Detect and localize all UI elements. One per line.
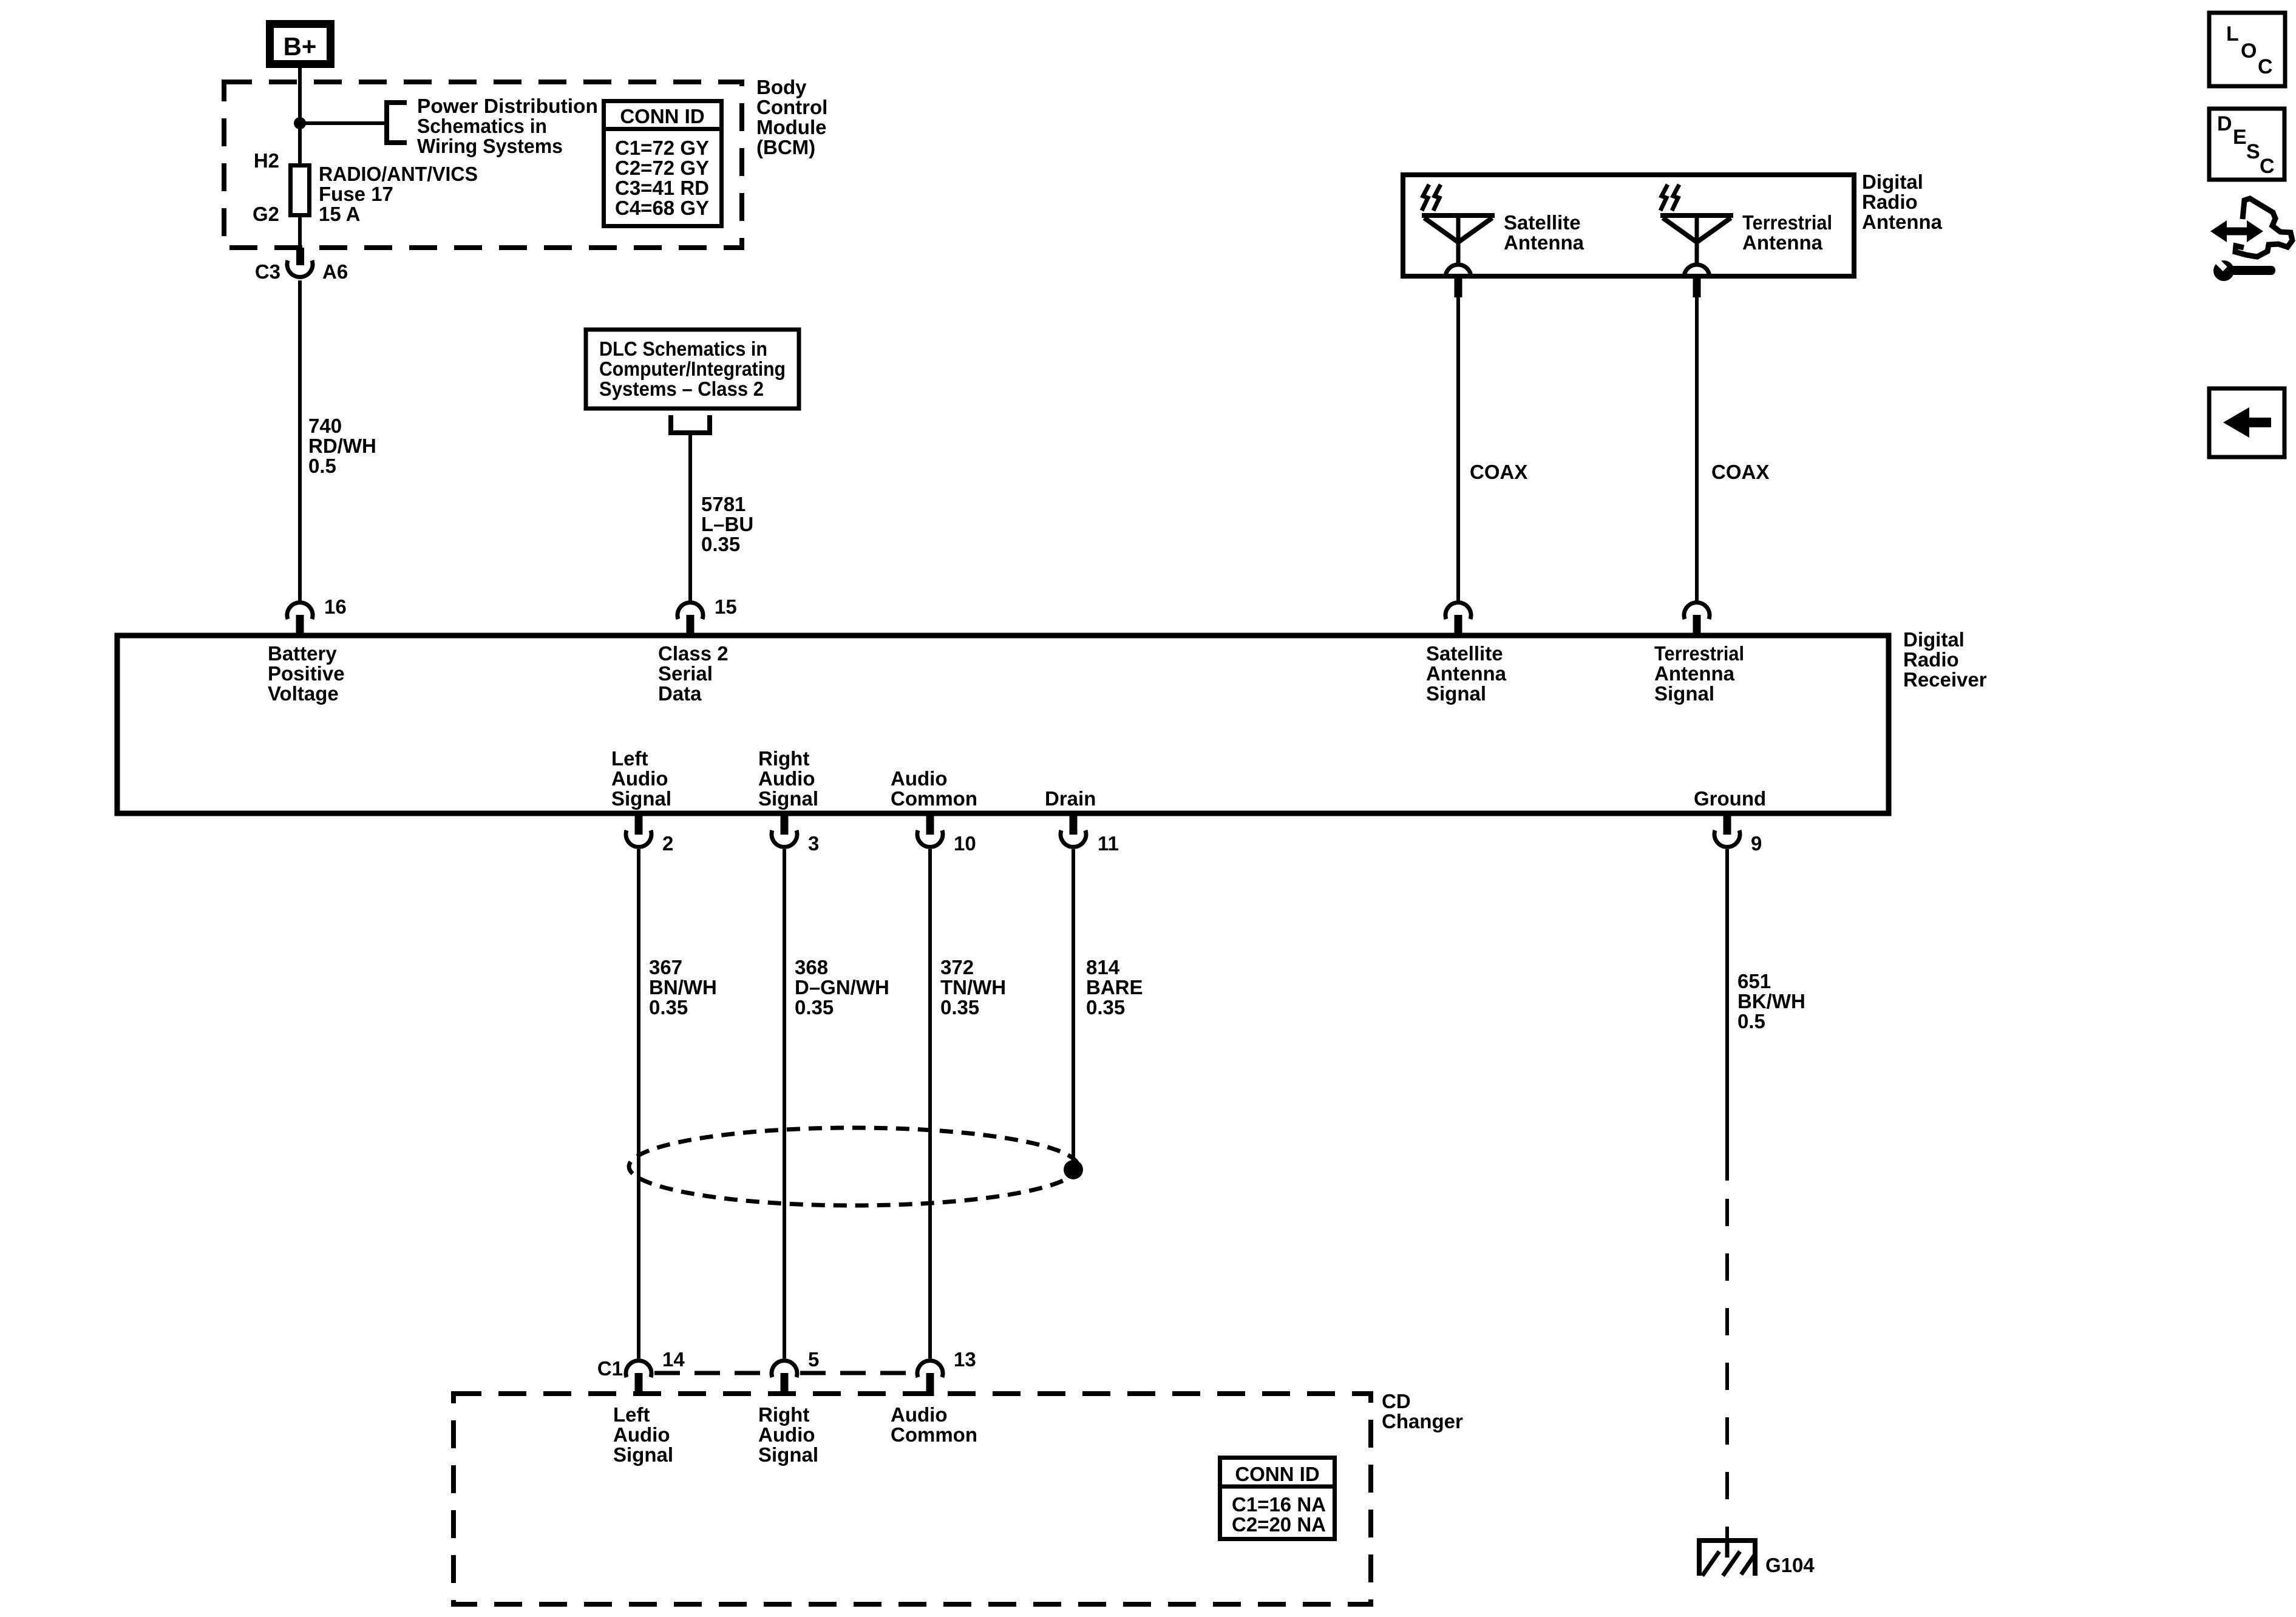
svg-text:Signal: Signal — [1654, 682, 1714, 705]
svg-text:Signal: Signal — [1426, 682, 1486, 705]
svg-text:Voltage: Voltage — [268, 682, 339, 705]
wire 368 D-GN/WH — [783, 849, 786, 1358]
svg-text:DLC Schematics in: DLC Schematics in — [599, 337, 767, 360]
svg-text:L–BU: L–BU — [701, 513, 753, 535]
satellite antenna symbol — [1422, 215, 1495, 263]
svg-text:L: L — [2226, 22, 2239, 46]
node Class 2 Serial Data label — [658, 642, 729, 705]
Digital Radio Receiver label — [1903, 628, 1987, 691]
Body Control Module dashed box — [224, 82, 742, 248]
svg-text:Class 2: Class 2 — [658, 642, 729, 665]
svg-text:Digital: Digital — [1862, 171, 1923, 193]
drain junction dot on shield — [1064, 1160, 1083, 1179]
LOC nav icon — [2209, 13, 2285, 86]
svg-text:C4=68 GY: C4=68 GY — [615, 197, 709, 219]
svg-text:C1=72 GY: C1=72 GY — [615, 137, 709, 159]
svg-text:(BCM): (BCM) — [756, 136, 815, 158]
receiver pin 16 connector — [287, 595, 347, 636]
svg-text:Audio: Audio — [891, 1403, 947, 1426]
svg-text:Drain: Drain — [1045, 787, 1096, 810]
wire 814 BARE drain — [1072, 849, 1075, 1170]
svg-text:Antenna: Antenna — [1426, 662, 1507, 685]
svg-text:814: 814 — [1086, 956, 1120, 978]
terrestrial antenna symbol — [1660, 215, 1733, 263]
svg-text:Changer: Changer — [1382, 1410, 1463, 1432]
svg-text:0.35: 0.35 — [649, 996, 688, 1019]
svg-text:C1: C1 — [597, 1357, 623, 1380]
svg-text:Audio: Audio — [613, 1423, 670, 1446]
svg-text:368: 368 — [795, 956, 828, 978]
ground G104 symbol — [1697, 1538, 1758, 1576]
svg-text:Audio: Audio — [758, 767, 815, 790]
receiver pin 2 connector — [626, 813, 673, 855]
CD label Left Audio Signal — [613, 1403, 673, 1466]
wire 651 dashed part — [1725, 1199, 1729, 1541]
svg-text:Satellite: Satellite — [1504, 211, 1581, 234]
wire 367 BN/WH — [637, 849, 640, 1358]
DLC off-page bracket — [671, 415, 710, 433]
svg-text:0.5: 0.5 — [1737, 1010, 1765, 1032]
svg-text:Signal: Signal — [758, 1443, 818, 1466]
svg-text:C3=41 RD: C3=41 RD — [615, 177, 709, 199]
svg-text:C1=16 NA: C1=16 NA — [1232, 1493, 1326, 1516]
svg-text:Common: Common — [891, 787, 977, 810]
svg-text:372: 372 — [940, 956, 974, 978]
svg-text:Audio: Audio — [891, 767, 947, 790]
satellite antenna connector dome — [1445, 265, 1471, 277]
CONN ID table (CD changer) — [1218, 1458, 1337, 1539]
svg-text:BK/WH: BK/WH — [1737, 990, 1805, 1012]
svg-text:CD: CD — [1382, 1390, 1411, 1412]
receiver terrestrial antenna pin connector — [1684, 603, 1710, 636]
connector C3 pin A6 arc — [287, 260, 313, 277]
svg-text:Radio: Radio — [1903, 648, 1959, 671]
wire junction to Power Distribution bracket — [300, 121, 387, 125]
svg-text:13: 13 — [954, 1348, 976, 1371]
svg-text:Left: Left — [613, 1403, 650, 1426]
CD pin 5 connector — [772, 1348, 819, 1396]
svg-text:Serial: Serial — [658, 662, 713, 685]
svg-text:14: 14 — [662, 1348, 685, 1371]
receiver satellite antenna pin connector — [1445, 603, 1471, 636]
svg-text:16: 16 — [324, 595, 347, 618]
receiver pin 3 connector — [772, 813, 819, 855]
svg-text:651: 651 — [1737, 970, 1771, 992]
CD label Audio Common — [891, 1403, 977, 1446]
wire 372 TN/WH — [928, 849, 932, 1358]
svg-text:Computer/Integrating: Computer/Integrating — [599, 358, 786, 380]
svg-text:Terrestrial: Terrestrial — [1742, 211, 1832, 234]
svg-text:740: 740 — [308, 415, 342, 437]
svg-text:G2: G2 — [253, 203, 279, 225]
CD Changer dashed box — [453, 1394, 1371, 1604]
DLC Schematics reference box — [586, 330, 799, 408]
svg-text:S: S — [2246, 140, 2260, 163]
svg-text:2: 2 — [662, 832, 673, 855]
svg-text:Module: Module — [756, 116, 826, 138]
node Terrestrial Antenna Signal label — [1654, 642, 1744, 705]
svg-text:3: 3 — [808, 832, 819, 855]
wire 5781 L-BU — [688, 433, 692, 601]
receiver top labels — [268, 642, 345, 705]
svg-text:Audio: Audio — [758, 1423, 815, 1446]
Digital Radio Antenna box — [1403, 175, 1854, 276]
node Satellite Antenna Signal label — [1426, 642, 1507, 705]
svg-text:BN/WH: BN/WH — [649, 976, 717, 998]
wire label 740 RD/WH 0.5 — [308, 415, 376, 477]
svg-text:15 A: 15 A — [319, 203, 360, 225]
wire label 372 TN/WH 0.35 — [940, 956, 1006, 1019]
svg-text:RADIO/ANT/VICS: RADIO/ANT/VICS — [319, 163, 478, 185]
Digital Radio Receiver box — [117, 636, 1889, 813]
CONN ID table (BCM) — [602, 101, 724, 226]
satellite antenna wave bolts — [1422, 185, 1441, 211]
COAX wire terrestrial — [1695, 297, 1699, 601]
schematic navigation arrow-wrench icon — [2210, 198, 2292, 281]
receiver pin 10 connector — [917, 813, 976, 855]
svg-text:RD/WH: RD/WH — [308, 435, 376, 457]
svg-text:E: E — [2233, 126, 2247, 149]
node junction dot — [294, 117, 306, 129]
wire label 651 BK/WH 0.5 — [1737, 970, 1805, 1032]
svg-text:Left: Left — [611, 747, 648, 770]
svg-text:Fuse 17: Fuse 17 — [319, 183, 393, 205]
wire label 367 BN/WH 0.35 — [649, 956, 717, 1019]
fuse F17 (RADIO/ANT/VICS Fuse 17 15A) — [291, 166, 310, 215]
back arrow nav icon — [2209, 388, 2284, 457]
svg-text:B+: B+ — [284, 32, 317, 61]
Satellite Antenna label — [1504, 211, 1584, 254]
svg-text:D: D — [2217, 112, 2232, 135]
svg-text:Ground: Ground — [1694, 787, 1766, 810]
svg-text:Data: Data — [658, 682, 702, 705]
svg-text:TN/WH: TN/WH — [940, 976, 1006, 998]
svg-text:Systems – Class 2: Systems – Class 2 — [599, 378, 764, 400]
CD changer connector C1 dashed link line — [654, 1371, 915, 1375]
svg-text:BARE: BARE — [1086, 976, 1143, 998]
Power Distribution reference text — [417, 95, 598, 157]
svg-text:C3: C3 — [255, 260, 280, 283]
CD pin 13 connector — [917, 1348, 976, 1396]
svg-text:Antenna: Antenna — [1862, 211, 1943, 233]
Digital Radio Antenna label — [1862, 171, 1943, 233]
svg-text:0.35: 0.35 — [701, 533, 740, 555]
svg-text:Receiver: Receiver — [1903, 668, 1987, 691]
wire label 814 BARE 0.35 — [1086, 956, 1143, 1019]
receiver pin 15 connector — [678, 595, 737, 636]
wire fuse G2 to BCM edge — [298, 215, 302, 250]
wire 651 BK/WH solid part — [1725, 849, 1729, 1181]
CD label Right Audio Signal — [758, 1403, 818, 1466]
CD Changer label — [1382, 1390, 1463, 1432]
svg-text:11: 11 — [1098, 832, 1119, 855]
terrestrial antenna connector dome — [1684, 265, 1710, 277]
svg-text:0.35: 0.35 — [1086, 996, 1125, 1019]
svg-text:C: C — [2258, 55, 2273, 78]
svg-text:9: 9 — [1751, 832, 1762, 855]
svg-text:5781: 5781 — [701, 493, 746, 515]
shield ellipse (drain shield) — [629, 1128, 1078, 1205]
svg-text:5: 5 — [808, 1348, 819, 1371]
receiver pin 11 connector — [1061, 813, 1119, 855]
svg-text:Right: Right — [758, 1403, 809, 1426]
B+ power symbol — [270, 24, 331, 64]
svg-text:Radio: Radio — [1862, 191, 1918, 213]
fuse value label — [319, 163, 478, 225]
svg-text:10: 10 — [954, 832, 976, 855]
wire label 368 D-GN/WH 0.35 — [795, 956, 889, 1019]
COAX wire satellite — [1456, 297, 1460, 601]
svg-text:Signal: Signal — [613, 1443, 673, 1466]
connector C3 pin A6 stub — [296, 248, 304, 265]
svg-text:G104: G104 — [1765, 1554, 1815, 1576]
Body Control Module (BCM) label — [756, 76, 827, 158]
svg-text:Common: Common — [891, 1423, 977, 1446]
wire B+ to fuse H2 — [298, 68, 302, 165]
svg-text:COAX: COAX — [1711, 461, 1769, 483]
receiver bottom labels Right Audio Signal — [758, 747, 818, 810]
svg-text:Battery: Battery — [268, 642, 337, 665]
svg-text:Satellite: Satellite — [1426, 642, 1503, 665]
svg-text:367: 367 — [649, 956, 682, 978]
Terrestrial Antenna label — [1742, 211, 1832, 254]
svg-text:15: 15 — [715, 595, 737, 618]
svg-text:COAX: COAX — [1470, 461, 1527, 483]
svg-text:CONN ID: CONN ID — [1235, 1463, 1319, 1485]
satellite antenna pin stub — [1455, 276, 1462, 297]
svg-text:CONN ID: CONN ID — [620, 105, 704, 127]
svg-text:C2=72 GY: C2=72 GY — [615, 157, 709, 179]
svg-text:Wiring Systems: Wiring Systems — [417, 135, 563, 157]
wire label 5781 L-BU 0.35 — [701, 493, 753, 555]
svg-text:Antenna: Antenna — [1504, 231, 1584, 254]
receiver pin 9 connector — [1714, 813, 1762, 855]
svg-text:O: O — [2241, 39, 2257, 63]
svg-text:Digital: Digital — [1903, 628, 1965, 651]
svg-text:H2: H2 — [254, 149, 279, 172]
terrestrial antenna pin stub — [1693, 276, 1701, 297]
svg-text:Body: Body — [756, 76, 807, 98]
Power Distribution off-page bracket — [384, 100, 407, 145]
svg-text:C: C — [2260, 155, 2275, 178]
svg-text:Power Distribution: Power Distribution — [417, 95, 598, 117]
svg-text:A6: A6 — [322, 260, 348, 283]
svg-text:0.35: 0.35 — [795, 996, 834, 1019]
svg-text:Signal: Signal — [611, 787, 671, 810]
svg-text:Antenna: Antenna — [1742, 231, 1823, 254]
CD pin 14 connector — [626, 1348, 685, 1396]
svg-text:Positive: Positive — [268, 662, 345, 685]
svg-text:Terrestrial: Terrestrial — [1654, 642, 1744, 665]
svg-text:0.5: 0.5 — [308, 455, 336, 477]
svg-text:Audio: Audio — [611, 767, 668, 790]
DESC nav icon — [2209, 109, 2284, 180]
terrestrial antenna wave bolts — [1660, 185, 1679, 211]
svg-text:Schematics in: Schematics in — [417, 115, 547, 137]
receiver bottom labels Left Audio Signal — [611, 747, 671, 810]
svg-text:Right: Right — [758, 747, 809, 770]
wire 740 RD/WH — [298, 280, 302, 601]
svg-text:Antenna: Antenna — [1654, 662, 1735, 685]
svg-text:Control: Control — [756, 96, 827, 118]
svg-text:D–GN/WH: D–GN/WH — [795, 976, 889, 998]
receiver bottom labels Audio Common — [891, 767, 977, 810]
svg-text:C2=20 NA: C2=20 NA — [1232, 1513, 1326, 1536]
svg-text:Signal: Signal — [758, 787, 818, 810]
svg-text:0.35: 0.35 — [940, 996, 979, 1019]
